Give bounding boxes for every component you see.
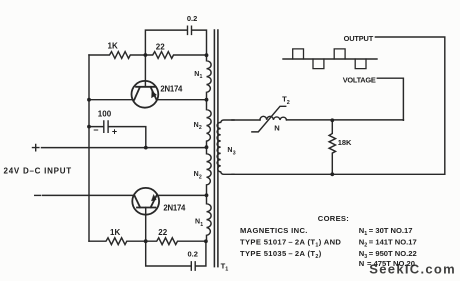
junction C3 plus lead / +24V rail <box>144 146 148 150</box>
svg-text:2: 2 <box>199 125 202 131</box>
svg-text:+: + <box>112 126 117 136</box>
junction bias rail / C3 node <box>87 125 91 129</box>
saturable reactor T2 core diagonal <box>252 106 286 132</box>
svg-text:1K: 1K <box>110 228 120 237</box>
svg-text:CORES:: CORES: <box>318 214 349 223</box>
wire bottom feedback loop (0.2 cap loop, lower) <box>146 241 206 266</box>
transformer T1 secondary N3 winding <box>217 120 234 174</box>
notes text CORES heading <box>240 214 417 268</box>
waveform axis <box>283 58 377 60</box>
svg-text:OUTPUT: OUTPUT <box>344 34 374 43</box>
wire Q2 base lead <box>145 208 147 242</box>
svg-text:N: N <box>194 171 199 178</box>
svg-text:VOLTAGE: VOLTAGE <box>343 75 376 84</box>
svg-text:−: − <box>93 125 98 135</box>
wire Q1 emitter-collector row <box>89 99 207 101</box>
wire top feedback loop (0.2 cap loop, upper) <box>145 30 206 55</box>
svg-text:TYPE 51017 – 2A (T1) AND: TYPE 51017 – 2A (T1) AND <box>240 238 341 249</box>
transformer T1 core <box>214 30 218 267</box>
capacitor C1 0.2 (upper feedback) <box>188 26 192 34</box>
junction T1 N1-N2 tap upper / Q1 collector <box>205 98 209 102</box>
capacitor C3 100 (electrolytic across supply) <box>89 127 146 148</box>
junction Q2 base / R3 / R4 / C2 node <box>144 239 148 243</box>
resistor R5 18K <box>329 120 335 174</box>
transformer T1 primary winding line (left) <box>207 55 212 241</box>
wire plus rail to transformer center tap <box>42 147 207 149</box>
svg-text:3: 3 <box>233 151 236 157</box>
resistor R1 1K (upper base bias) <box>89 52 145 59</box>
svg-text:0.2: 0.2 <box>187 14 197 23</box>
svg-text:N1 = 30T NO.17: N1 = 30T NO.17 <box>359 226 413 237</box>
saturable reactor T2 winding N <box>260 116 287 120</box>
waveform square pulses <box>293 49 366 69</box>
svg-text:2N174: 2N174 <box>163 204 186 213</box>
svg-text:N: N <box>194 71 199 78</box>
junction R5 bottom / output return rail <box>330 172 334 176</box>
wire bottom rail (N3 bottom to output corner) <box>232 173 445 175</box>
transistor Q2 2N174 (lower) <box>132 188 159 215</box>
junction T1 winding N1 top / C1 node <box>205 53 209 57</box>
junction bias rail / Q1 emitter row <box>87 98 91 102</box>
junction Q1 base / R1 / R2 / C1 node <box>144 53 148 57</box>
svg-text:1: 1 <box>225 267 228 273</box>
svg-text:N2 = 141T NO.17: N2 = 141T NO.17 <box>359 238 417 249</box>
resistor R2 22 (upper base) <box>145 52 205 59</box>
svg-text:N: N <box>195 218 200 225</box>
capacitor C2 0.2 (lower feedback) <box>191 262 195 270</box>
wire left vertical rail (base bias rail) <box>88 55 90 241</box>
junction T1 N2-N1 tap lower / Q2 collector <box>205 193 209 197</box>
resistor R4 22 (lower base) <box>146 238 206 245</box>
junction R5 top / T2 output node <box>330 118 334 122</box>
svg-text:SeekIC.com: SeekIC.com <box>369 261 456 276</box>
svg-text:1K: 1K <box>108 42 118 51</box>
svg-text:N: N <box>274 124 279 133</box>
svg-text:MAGNETICS INC.: MAGNETICS INC. <box>240 226 308 235</box>
svg-text:0.2: 0.2 <box>188 249 198 258</box>
svg-text:2: 2 <box>287 100 290 106</box>
terminal minus (24V input) <box>35 194 41 196</box>
wire output right vertical and top <box>375 37 444 174</box>
junction T1 winding N1 bottom / C2 node <box>204 239 208 243</box>
svg-text:TYPE 51035 – 2A (T2): TYPE 51035 – 2A (T2) <box>240 249 322 260</box>
svg-text:18K: 18K <box>338 138 352 147</box>
svg-text:N: N <box>194 122 199 129</box>
wire N3 top to T2 and 18K node <box>232 119 403 121</box>
svg-text:100: 100 <box>98 109 112 118</box>
svg-text:2N174: 2N174 <box>160 84 183 93</box>
svg-text:22: 22 <box>158 228 167 237</box>
svg-text:1: 1 <box>200 74 203 80</box>
svg-text:2: 2 <box>199 174 202 180</box>
wire voltage branch <box>377 78 403 120</box>
wire minus rail to Q2 <box>43 194 207 196</box>
svg-text:24V D–C INPUT: 24V D–C INPUT <box>4 167 72 176</box>
resistor R3 1K (lower base bias) <box>89 238 145 245</box>
transistor Q1 2N174 (upper) <box>132 81 159 108</box>
junction T1 center tap / +24V rail <box>205 145 209 149</box>
svg-text:1: 1 <box>200 222 203 228</box>
wire Q1 base lead <box>144 55 146 87</box>
svg-text:22: 22 <box>156 43 165 52</box>
terminal plus (24V input) <box>33 144 39 150</box>
